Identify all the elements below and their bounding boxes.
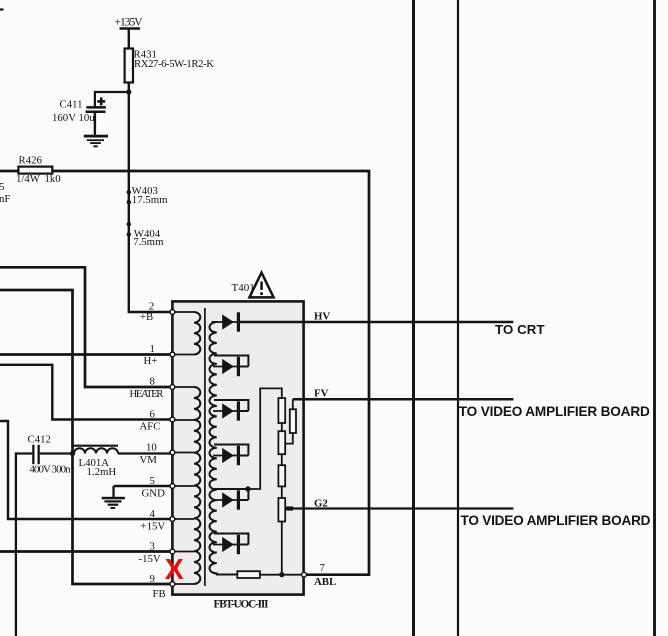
transformer primary winding upper (pins 2-1)	[194, 312, 200, 354]
wire secondary tap 3	[214, 445, 248, 456]
svg-text:400V 300n: 400V 300n	[30, 464, 72, 476]
wire FV output	[293, 398, 514, 401]
resistor divider Rd	[278, 498, 285, 522]
svg-text:AFC: AFC	[140, 421, 161, 433]
wire vertical bus A	[412, 0, 415, 636]
pin 7 circle	[302, 572, 307, 577]
svg-text:5: 5	[0, 181, 4, 193]
wire C411 to ground	[94, 113, 96, 136]
wire L401A to pin 10	[118, 452, 172, 454]
svg-text:3: 3	[150, 540, 155, 552]
svg-text:7: 7	[320, 562, 326, 574]
pin 3 circle	[170, 549, 175, 554]
wire Rb-Rc	[281, 454, 283, 465]
svg-text:VM: VM	[140, 454, 158, 466]
svg-text:5: 5	[150, 475, 155, 487]
wire C412 left to bottom edge	[16, 454, 32, 636]
ground below C411	[84, 135, 108, 148]
label C411 polarity plus	[97, 97, 105, 105]
wire +B into pin 2	[128, 311, 172, 313]
node junction dot VM/FB vertical	[70, 451, 75, 456]
svg-text:1: 1	[150, 343, 155, 355]
resistor R431	[125, 49, 133, 83]
wire -15V line	[0, 550, 172, 553]
wire Re top to FV	[292, 399, 294, 409]
svg-text:17.5mm: 17.5mm	[132, 194, 168, 206]
wire junction to C411	[95, 92, 129, 107]
svg-text:TO CRT: TO CRT	[495, 322, 545, 337]
capacitor C411 bottom plate	[86, 111, 106, 114]
diode D5	[213, 490, 248, 509]
wire vertical bus C (right edge)	[653, 0, 656, 636]
wire GND pin 5	[114, 485, 172, 487]
pin 10 circle	[170, 450, 175, 455]
svg-text:160V 10u: 160V 10u	[52, 112, 95, 124]
svg-text:-15V: -15V	[139, 553, 161, 565]
wire Ra-Rb	[281, 423, 283, 431]
wire +135V to R431	[128, 29, 130, 50]
node junction dot ABL/divider	[279, 572, 284, 577]
pin 9 circle	[170, 582, 175, 587]
svg-text:X: X	[165, 554, 184, 586]
svg-text:TO VIDEO AMPLIFIER BOARD: TO VIDEO AMPLIFIER BOARD	[461, 513, 651, 528]
svg-text:RX27-6-5W-1R2-K: RX27-6-5W-1R2-K	[134, 58, 214, 70]
wire +15V feed (left edge via x=8)	[0, 421, 172, 519]
resistor divider Ra	[278, 398, 285, 423]
svg-text:HEATER: HEATER	[130, 388, 165, 400]
capacitor C412	[32, 445, 40, 464]
wire D5 node to divider top	[248, 388, 282, 489]
svg-text:+135V: +135V	[115, 17, 144, 29]
wire G2 output	[285, 507, 513, 509]
transformer secondary winding	[210, 322, 238, 575]
svg-text:C411: C411	[60, 99, 83, 111]
diode D4	[213, 446, 248, 465]
wire AFC feed (left edge via x=52)	[0, 365, 172, 420]
svg-text:+B: +B	[140, 311, 153, 323]
diode D6	[213, 535, 248, 554]
svg-text:H+: H+	[144, 355, 158, 367]
svg-text:C412: C412	[28, 434, 51, 446]
svg-text:6: 6	[150, 408, 156, 420]
wire Rc-Rd	[281, 486, 283, 498]
svg-text:4: 4	[150, 508, 156, 520]
pin 1 circle	[170, 352, 175, 357]
jumper W403	[127, 190, 131, 204]
diode D2	[213, 357, 248, 376]
svg-text:G2: G2	[314, 497, 328, 509]
svg-text:FB: FB	[153, 588, 166, 600]
node junction dot R431/C411	[126, 89, 131, 94]
svg-text:8: 8	[150, 376, 155, 388]
transformer core line	[204, 308, 206, 586]
wire ABL row to pin 7	[260, 574, 304, 576]
transformer primary winding lower (pins 8-9)	[194, 387, 200, 584]
warning triangle	[249, 273, 273, 298]
svg-text:1.2mH: 1.2mH	[87, 466, 117, 478]
resistor ABL (horizontal)	[237, 571, 260, 578]
wire secondary tap 2	[214, 400, 248, 411]
wire main rail to ABL	[0, 171, 369, 575]
resistor FV branch Re	[290, 409, 296, 433]
diode D3	[213, 401, 248, 420]
svg-text:FBT-UOC-III: FBT-UOC-III	[214, 599, 270, 611]
resistor divider Rc	[278, 465, 285, 486]
svg-text:7.5mm: 7.5mm	[133, 236, 164, 248]
svg-text:1k0: 1k0	[45, 173, 61, 185]
resistor divider Rb	[278, 431, 285, 454]
wire vertical bus B	[457, 0, 459, 636]
wire HV output	[240, 321, 514, 324]
svg-text:1/4W: 1/4W	[16, 173, 41, 185]
diode D1	[213, 312, 240, 331]
transformer primary stubs	[173, 312, 194, 584]
svg-text:nF: nF	[0, 193, 10, 205]
svg-text:TO VIDEO AMPLIFIER BOARD: TO VIDEO AMPLIFIER BOARD	[459, 404, 650, 419]
jumper W404	[127, 222, 131, 237]
svg-text:ABL: ABL	[314, 576, 336, 588]
node G2 tap blob	[286, 506, 293, 510]
svg-text:10: 10	[146, 441, 157, 453]
pin 4 circle	[170, 517, 175, 522]
pin 2 circle	[170, 310, 175, 315]
capacitor C411 top plate	[86, 106, 106, 109]
power +135V terminal bar	[120, 27, 141, 29]
wire stub top-left edge	[0, 8, 4, 10]
wire Rd to ABL row	[281, 522, 283, 575]
inductor L401A	[73, 446, 118, 454]
pin 5 circle	[170, 484, 175, 489]
svg-text:HV: HV	[314, 311, 330, 323]
svg-text:9: 9	[150, 573, 155, 585]
node junction dot D5 tap	[245, 486, 250, 491]
svg-text:GND: GND	[142, 488, 166, 500]
pin 8 circle	[170, 385, 175, 390]
pin 6 circle	[170, 417, 175, 422]
wire secondary tap 4	[214, 489, 248, 500]
svg-text:+15V: +15V	[141, 521, 166, 533]
svg-text:FV: FV	[314, 388, 329, 400]
wire FB feed (left edge via x=72.5)	[0, 290, 172, 584]
wire R431 down to +B corner	[128, 83, 130, 313]
wire secondary tap 5	[214, 534, 248, 545]
wire HEATER feed (left edge via x=85)	[0, 267, 172, 387]
resistor R426	[18, 167, 52, 174]
transformer T401 body	[172, 301, 303, 594]
wire C412 to L401A	[40, 452, 75, 454]
svg-text:R426: R426	[19, 155, 43, 167]
wire H+ line	[0, 353, 172, 356]
ground at pin 5	[102, 486, 125, 509]
wire Re bottom elbow	[285, 433, 293, 444]
wire secondary tap 1	[214, 356, 248, 367]
